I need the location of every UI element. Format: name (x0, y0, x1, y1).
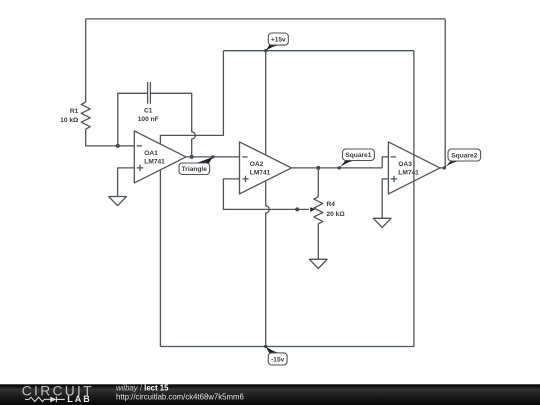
svg-text:-15v: -15v (271, 356, 285, 363)
wire: +15v supply rail (223, 50, 414, 52)
svg-text:http://circuitlab.com/ck4t68w7: http://circuitlab.com/ck4t68w7k5mm6 (116, 392, 244, 401)
flag Square2 pointer (444, 161, 461, 168)
flag Square1 pointer (339, 160, 355, 168)
pin: OA3 non-inverting input marker (391, 176, 397, 182)
svg-text:OA3: OA3 (398, 161, 412, 168)
node: Square1 flag anchor (338, 166, 341, 169)
svg-text:Square1: Square1 (345, 152, 371, 159)
wire: right feedback drop to OA3 output (444, 19, 446, 168)
svg-text:R4: R4 (327, 201, 336, 208)
wire: R4 top lead (317, 168, 319, 197)
op-amp OA3 LM741 triangle (388, 142, 440, 194)
wire: C1 left branch (118, 93, 148, 146)
node: -15v flag anchor (264, 345, 267, 348)
pin: OA2 inverting input marker (242, 156, 247, 158)
wire: R1 top lead up to top rail (85, 19, 87, 102)
node: OA1 output junction (190, 155, 194, 159)
wire: -15v supply rail (160, 346, 414, 348)
svg-text:R1: R1 (70, 108, 79, 115)
node: Triangle flag anchor (211, 155, 214, 158)
svg-text:LM741: LM741 (398, 169, 419, 176)
wire: OA1 V+ pin to +15v rail (160, 51, 223, 144)
flag +15v box (268, 33, 288, 45)
wire: OA1 non-inverting input to ground (118, 168, 135, 197)
pin: OA2 non-inverting input marker (242, 176, 248, 182)
wire: wiper lead (297, 208, 309, 210)
node: junction R1 / C1 / OA1 in- (116, 144, 120, 148)
wire: OA2 non-inverting input to R4 wiper (223, 179, 297, 210)
pin: OA1 inverting input marker (137, 145, 142, 147)
wire: OA2 V- supply drop to -15v rail (with hop) (266, 181, 270, 347)
op-amp OA1 LM741 triangle (134, 131, 186, 183)
svg-text:C1: C1 (144, 108, 153, 115)
flag Triangle box (179, 163, 210, 175)
svg-text:20 kΩ: 20 kΩ (327, 211, 346, 218)
logo diode symbol (50, 397, 56, 403)
wire: OA3 output stub (440, 167, 445, 169)
node: R4 wiper wire junction (295, 207, 299, 211)
wire: top feedback rail (86, 18, 446, 20)
wire: C1 right branch down to OA1 output (with hop) (150, 93, 195, 157)
svg-text:Triangle: Triangle (182, 166, 208, 173)
ground: below R4 (309, 259, 327, 268)
wire: OA1 V- pin down to -15v rail (159, 170, 161, 346)
flag -15v box (268, 353, 287, 365)
ground: below OA1 non-inverting input (109, 197, 127, 206)
flag Square2 box (448, 149, 481, 161)
wire: R1 bottom lead to OA1 inverting input (86, 129, 135, 146)
wire: OA1 output to OA2 inverting input (186, 156, 240, 158)
node: +15v flag anchor (264, 49, 267, 52)
ground: below OA3 non-inverting input (373, 218, 391, 227)
wire: R4 bottom lead to ground (317, 224, 319, 259)
flag Triangle pointer (196, 157, 213, 164)
svg-text:OA2: OA2 (250, 161, 264, 168)
pin: OA1 non-inverting input marker (137, 165, 143, 171)
resistor R4 (potentiometer) (314, 197, 323, 224)
wire: jog up to OA3 inverting input (382, 157, 388, 168)
flag +15v pointer (266, 45, 278, 51)
capacitor C1 (148, 82, 151, 104)
flag -15v pointer (266, 346, 278, 353)
svg-text:OA1: OA1 (144, 150, 158, 157)
svg-text:Square2: Square2 (451, 152, 477, 159)
flag Square1 box (343, 149, 375, 161)
svg-text:LM741: LM741 (250, 169, 271, 176)
pin: OA3 inverting input marker (391, 156, 396, 158)
svg-text:LAB: LAB (67, 394, 92, 404)
svg-text:wilbay / lect 15: wilbay / lect 15 (116, 383, 169, 392)
logo squiggle wire (25, 397, 50, 401)
svg-text:10 kΩ: 10 kΩ (60, 117, 79, 124)
svg-text:100 nF: 100 nF (138, 116, 159, 123)
node: Square2 flag anchor (443, 166, 446, 169)
svg-text:+15v: +15v (271, 36, 286, 43)
wire: right supply column +15v rail to -15v rail through OA3 (413, 51, 415, 347)
wire: OA3 non-inverting input to ground (382, 179, 388, 218)
resistor R1 (81, 102, 90, 129)
svg-text:LM741: LM741 (144, 158, 165, 165)
op-amp OA2 LM741 triangle (240, 142, 292, 194)
node: OA2 output junction (316, 166, 320, 170)
wire: OA2 V+ supply drop (265, 51, 267, 155)
pin: R4 wiper arrowhead (310, 207, 315, 212)
wire: OA2 output to OA3 side (292, 167, 383, 169)
